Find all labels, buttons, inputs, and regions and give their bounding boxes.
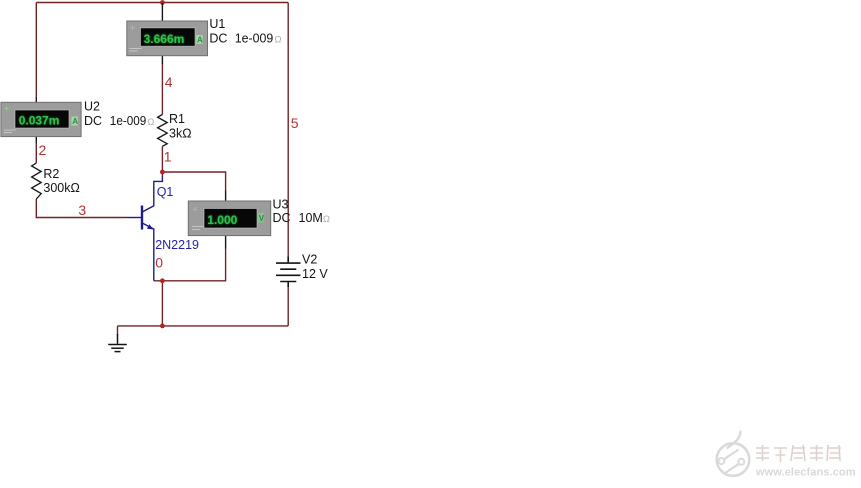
svg-text:R2: R2 bbox=[43, 167, 59, 181]
wire U1 bottom to R1 node 4 bbox=[161, 64, 163, 115]
pin U1 top bbox=[161, 3, 163, 21]
svg-text:+: + bbox=[193, 205, 198, 215]
watermark CJK text blocks bbox=[756, 445, 841, 462]
svg-text:DC: DC bbox=[273, 211, 291, 225]
svg-text:0.037m: 0.037m bbox=[19, 114, 60, 128]
transistor Q1 collector lead bbox=[143, 177, 163, 212]
svg-text:3kΩ: 3kΩ bbox=[169, 127, 192, 141]
resistor R2 zigzag bbox=[32, 163, 42, 199]
wire ground stub upper bbox=[117, 326, 119, 335]
resistor R1 zigzag bbox=[158, 115, 168, 147]
svg-text:12 V: 12 V bbox=[302, 267, 328, 281]
svg-text:V: V bbox=[259, 214, 265, 223]
pin U1 bottom bbox=[161, 56, 163, 64]
wire R2 bottom to base node 3 bbox=[36, 199, 126, 218]
transistor Q1 emitter arrow bbox=[147, 224, 153, 229]
svg-text:0: 0 bbox=[155, 255, 163, 271]
svg-text:U2: U2 bbox=[84, 99, 100, 113]
wire R1 bottom to collector node 1 bbox=[161, 146, 163, 177]
wire left rail bbox=[35, 3, 37, 98]
svg-text:+: + bbox=[130, 23, 135, 33]
junction node 5 top bbox=[160, 0, 165, 5]
pin U2 bottom bbox=[35, 137, 37, 143]
svg-text:1.000: 1.000 bbox=[207, 213, 237, 227]
svg-text:U3: U3 bbox=[273, 198, 289, 212]
svg-text:www.elecfans.com: www.elecfans.com bbox=[755, 467, 856, 479]
wire top rail node 5 bbox=[36, 2, 288, 4]
svg-text:5: 5 bbox=[291, 115, 299, 131]
svg-text:A: A bbox=[197, 36, 203, 45]
transistor Q1 base bar bbox=[141, 206, 143, 230]
svg-text:2N2219: 2N2219 bbox=[155, 238, 199, 252]
svg-text:+: + bbox=[4, 104, 9, 114]
transistor Q1 emitter lead bbox=[143, 223, 154, 281]
watermark logo circle bbox=[717, 432, 750, 476]
multimeter U2 body bbox=[1, 102, 81, 136]
svg-text:1e-009: 1e-009 bbox=[110, 114, 147, 128]
svg-text:V2: V2 bbox=[302, 253, 317, 267]
ground symbol bbox=[108, 334, 127, 352]
wire U3 bottom to node 0 bbox=[154, 249, 226, 281]
wire ground rail bbox=[118, 325, 289, 327]
battery V2 plates bbox=[276, 257, 301, 288]
svg-text:DC: DC bbox=[209, 31, 227, 45]
svg-text:R1: R1 bbox=[169, 112, 185, 126]
svg-text:1: 1 bbox=[164, 149, 172, 165]
multimeter U1 body bbox=[127, 21, 208, 56]
junction node 1 bbox=[160, 170, 165, 175]
pin U3 top bbox=[225, 191, 227, 202]
svg-text:10MΩ: 10MΩ bbox=[299, 211, 330, 225]
pin U2 top bbox=[35, 98, 37, 103]
svg-text:DC: DC bbox=[84, 114, 102, 128]
multimeter U3 body bbox=[188, 201, 270, 236]
svg-text:Ω: Ω bbox=[275, 34, 282, 45]
svg-text:4: 4 bbox=[165, 74, 173, 90]
wire U2 bottom to R2 node 2 bbox=[35, 142, 37, 163]
svg-text:300kΩ: 300kΩ bbox=[43, 181, 79, 195]
svg-text:U1: U1 bbox=[209, 17, 225, 31]
wire right rail node 5 bbox=[287, 3, 289, 257]
wire battery bottom bbox=[287, 287, 289, 326]
svg-text:A: A bbox=[72, 117, 78, 126]
svg-text:Q1: Q1 bbox=[157, 185, 174, 199]
svg-text:3.666m: 3.666m bbox=[144, 32, 185, 46]
wire node1 to U3 top bbox=[162, 172, 225, 191]
svg-text:Ω: Ω bbox=[147, 117, 154, 128]
junction node 0 bbox=[160, 278, 165, 283]
svg-text:1e-009: 1e-009 bbox=[235, 31, 274, 45]
svg-text:2: 2 bbox=[39, 142, 47, 158]
junction ground rail bbox=[160, 324, 165, 329]
transistor Q1 base lead bbox=[127, 217, 143, 219]
pin U3 bottom bbox=[225, 236, 227, 249]
svg-text:3: 3 bbox=[78, 202, 86, 218]
wire emitter junction down bbox=[161, 281, 163, 326]
